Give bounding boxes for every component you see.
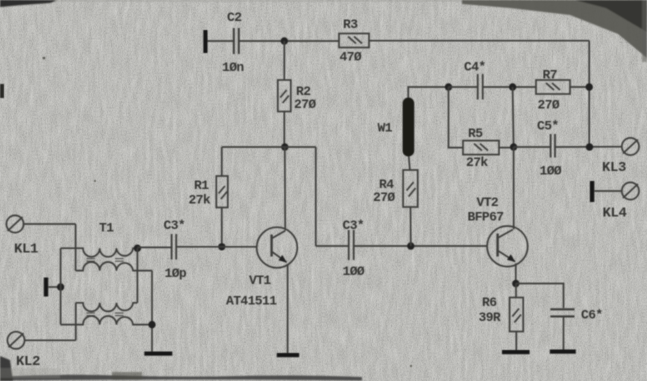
- node dot at C2/R2 junction: [281, 37, 288, 44]
- svg-text:C6*: C6*: [581, 308, 603, 323]
- wire bar to node: [48, 286, 60, 288]
- wire W1 top to node: [408, 87, 448, 98]
- crystal W1: [403, 98, 415, 157]
- svg-text:R5: R5: [468, 126, 483, 141]
- scan shadow top-right corner: [462, 0, 647, 62]
- node dot R1/base junction: [218, 243, 225, 250]
- terminal bar at T1: [44, 278, 48, 297]
- svg-text:R3: R3: [343, 17, 358, 32]
- capacitor C5: [551, 134, 555, 158]
- wire emitter dot to R6: [515, 284, 517, 298]
- node dot emitter: [512, 280, 519, 287]
- svg-text:1Øp: 1Øp: [165, 266, 187, 281]
- wire W1 bottom to R4: [409, 157, 410, 171]
- wire bar to C2: [208, 40, 234, 42]
- node dot T1 output: [134, 245, 141, 252]
- svg-text:27Ø: 27Ø: [373, 190, 395, 205]
- wire R3 to top-right corner: [369, 40, 589, 42]
- wire R6 to ground: [515, 332, 517, 351]
- transformer T1 winding 1a (top pair upper): [61, 248, 138, 257]
- svg-text:C5*: C5*: [537, 119, 559, 134]
- wire R5 to node: [499, 147, 514, 149]
- scan speck: [43, 57, 46, 60]
- node dot C5/KL3: [586, 143, 593, 150]
- node dot C4/R7 junction: [509, 83, 516, 90]
- resistor R3: [339, 34, 369, 48]
- wire KL1 to T1: [24, 223, 76, 225]
- wire R1 bottom lead: [221, 208, 223, 247]
- svg-text:VT2: VT2: [477, 195, 499, 210]
- wire VT1 emitter to ground: [287, 264, 289, 353]
- wire C4 to R7: [483, 86, 536, 88]
- svg-text:T1: T1: [99, 221, 114, 236]
- wire corner to C3b left plate: [316, 245, 348, 247]
- capacitor C2: [234, 28, 239, 54]
- terminal bar at C2 input: [203, 30, 207, 53]
- wire VT2 collector: [513, 147, 515, 229]
- svg-text:C2: C2: [227, 10, 242, 25]
- resistor R2: [278, 80, 291, 112]
- svg-text:BFP67: BFP67: [468, 210, 504, 225]
- connector KL3: [622, 138, 639, 155]
- svg-text:27Ø: 27Ø: [294, 97, 316, 112]
- capacitor C6: [550, 309, 574, 316]
- svg-text:27k: 27k: [189, 193, 211, 208]
- wire middle horizontal R1 to C3 corner: [222, 146, 316, 148]
- svg-text:39R: 39R: [479, 310, 501, 325]
- wire VT2 emitter: [515, 263, 517, 283]
- svg-text:W1: W1: [378, 121, 393, 136]
- wire R1 top lead: [221, 147, 223, 176]
- node dot R2/collector junction: [281, 143, 288, 150]
- wire R2 bottom lead: [283, 112, 285, 148]
- wire C4 node down to R5 node: [513, 87, 514, 147]
- connector KL4: [622, 182, 639, 199]
- svg-text:R6: R6: [482, 295, 497, 310]
- svg-text:1ØØ: 1ØØ: [343, 264, 365, 279]
- terminal bar at KL4: [590, 181, 594, 202]
- wire R7 to corner: [570, 86, 589, 88]
- svg-text:C3*: C3*: [164, 218, 186, 233]
- wire node to C5: [514, 146, 550, 148]
- svg-text:KL1: KL1: [14, 242, 38, 258]
- wire KL2 to corner: [25, 339, 76, 341]
- svg-text:27k: 27k: [466, 155, 488, 170]
- svg-text:1ØØ: 1ØØ: [540, 164, 562, 179]
- svg-text:47Ø: 47Ø: [340, 50, 362, 65]
- resistor R1: [216, 176, 228, 208]
- wire C3b to VT2 base: [354, 245, 487, 247]
- svg-text:C4*: C4*: [464, 60, 486, 75]
- wire T1 left column vertical: [60, 248, 62, 324]
- wire T1 dot down to bottom pair: [136, 248, 138, 303]
- resistor R4: [403, 170, 418, 207]
- wire T1 to C3a: [137, 246, 171, 248]
- wire W1 node down to R5: [449, 87, 464, 148]
- wire C2 to R3: [240, 40, 340, 42]
- wire KL2 corner up to winding 2a: [75, 303, 77, 341]
- wire C5 to KL3: [556, 146, 622, 148]
- transistor VT1: [257, 227, 298, 268]
- wire emitter to C6: [516, 284, 564, 309]
- transformer T1 winding 2b (bottom pair lower): [61, 316, 152, 325]
- wire corner down to C3b: [315, 147, 317, 246]
- wire R2 top lead: [283, 41, 285, 80]
- svg-text:KL4: KL4: [603, 206, 627, 222]
- node dot R5/C5/collector: [510, 143, 517, 150]
- transistor VT2: [487, 226, 528, 267]
- capacitor C3b: [349, 230, 354, 260]
- svg-text:1Øn: 1Øn: [222, 60, 244, 75]
- transformer T1 winding 1b (top pair lower): [76, 262, 152, 271]
- wire C6 to ground: [563, 318, 565, 350]
- wire KL1 corner down to lower winding: [75, 224, 77, 271]
- node dot R7 right: [586, 83, 593, 90]
- scan mark left edge: [0, 84, 4, 98]
- svg-text:AT41511: AT41511: [226, 294, 277, 309]
- svg-text:R1: R1: [194, 178, 209, 193]
- node dot R4/base junction: [407, 242, 414, 249]
- node dot T1 bottom right: [148, 321, 155, 328]
- connector KL2: [7, 332, 24, 349]
- wire node to C4: [449, 86, 478, 88]
- svg-text:VT1: VT1: [249, 273, 271, 288]
- capacitor C3a: [172, 234, 177, 260]
- wire top-right corner down: [588, 41, 590, 147]
- capacitor C4: [478, 74, 483, 100]
- wire R4 bottom lead: [410, 207, 412, 246]
- T1 core marks bottom pair: [87, 313, 124, 316]
- node dot T1 left column: [57, 283, 64, 290]
- connector KL1: [6, 215, 23, 232]
- svg-text:KL3: KL3: [602, 160, 626, 176]
- svg-text:KL2: KL2: [16, 354, 40, 370]
- wire top pair lower winding right corner down: [151, 271, 153, 352]
- wire C3a to VT1 base: [177, 246, 257, 248]
- wire VT1 collector: [284, 147, 286, 230]
- T1 core marks top pair: [87, 259, 124, 262]
- svg-text:27Ø: 27Ø: [538, 98, 560, 113]
- scan shadow top-left corner: [0, 0, 465, 7]
- ground T1: [144, 352, 172, 356]
- ground VT1: [277, 353, 299, 357]
- node dot W1 top: [445, 83, 452, 90]
- ground R6: [502, 350, 530, 354]
- resistor R7: [536, 80, 570, 94]
- resistor R6: [510, 298, 524, 332]
- svg-text:R7: R7: [543, 68, 557, 83]
- svg-text:C3*: C3*: [343, 218, 365, 233]
- resistor R5: [463, 141, 499, 155]
- wire bar to KL4: [594, 190, 622, 192]
- transformer T1 winding 2a (bottom pair upper): [76, 303, 138, 312]
- ground C6: [550, 350, 576, 354]
- scan shadow bottom-left + bottom streak: [0, 356, 362, 381]
